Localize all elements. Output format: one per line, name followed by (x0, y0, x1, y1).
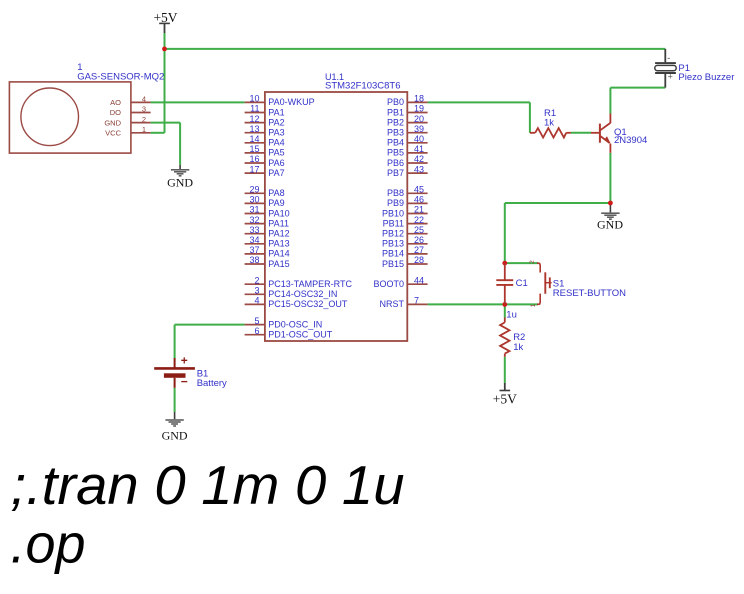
svg-text:PB14: PB14 (382, 249, 404, 259)
svg-text:STM32F103C8T6: STM32F103C8T6 (325, 80, 401, 91)
svg-text:11: 11 (250, 104, 259, 114)
svg-text:−: − (181, 375, 188, 389)
svg-text:PB12: PB12 (382, 229, 404, 239)
svg-text:GAS-SENSOR-MQ2: GAS-SENSOR-MQ2 (77, 71, 164, 82)
svg-text:39: 39 (414, 124, 424, 134)
svg-text:-: - (667, 53, 670, 63)
svg-text:28: 28 (414, 255, 424, 265)
svg-text:GND: GND (167, 176, 193, 190)
svg-text:14: 14 (249, 134, 259, 144)
svg-text:37: 37 (249, 245, 259, 255)
svg-text:46: 46 (414, 195, 424, 205)
svg-text:+5V: +5V (493, 392, 517, 407)
svg-text:4: 4 (142, 95, 146, 104)
svg-text:PB9: PB9 (387, 198, 404, 208)
svg-text:26: 26 (414, 235, 424, 245)
svg-text:+5V: +5V (153, 10, 177, 25)
svg-text:2: 2 (529, 260, 536, 264)
svg-text:38: 38 (249, 255, 259, 265)
svg-text:PB13: PB13 (382, 239, 404, 249)
svg-text:2: 2 (142, 115, 146, 124)
svg-text:PA3: PA3 (268, 128, 284, 138)
svg-text:10: 10 (249, 94, 259, 104)
svg-text:PC14-OSC32_IN: PC14-OSC32_IN (268, 289, 337, 299)
svg-text:33: 33 (249, 225, 259, 235)
svg-text:1: 1 (142, 125, 146, 134)
svg-text:1: 1 (530, 303, 537, 307)
svg-text:PA4: PA4 (268, 138, 284, 148)
svg-text:PA0-WKUP: PA0-WKUP (268, 97, 314, 107)
svg-text:Piezo Buzzer: Piezo Buzzer (678, 72, 734, 83)
svg-text:AO: AO (110, 98, 121, 107)
svg-text:16: 16 (249, 154, 259, 164)
svg-text:18: 18 (414, 94, 424, 104)
svg-text:43: 43 (414, 164, 424, 174)
svg-text:2: 2 (254, 275, 259, 285)
svg-text:PB15: PB15 (382, 259, 404, 269)
svg-text:C1: C1 (516, 278, 528, 289)
svg-text:27: 27 (414, 245, 424, 255)
svg-text:PB11: PB11 (383, 218, 404, 228)
svg-text:34: 34 (249, 235, 259, 245)
svg-text:PA12: PA12 (268, 229, 289, 239)
svg-text:19: 19 (414, 104, 424, 114)
svg-text:13: 13 (249, 124, 259, 134)
svg-text:.op: .op (11, 513, 86, 575)
svg-text:PB8: PB8 (387, 188, 404, 198)
svg-text:12: 12 (249, 114, 259, 124)
svg-text:GND: GND (162, 429, 188, 443)
svg-text:PA13: PA13 (268, 239, 289, 249)
svg-text:PA10: PA10 (268, 208, 289, 218)
svg-text:PD1-OSC_OUT: PD1-OSC_OUT (268, 330, 333, 340)
svg-text:17: 17 (249, 164, 259, 174)
svg-text:PA5: PA5 (268, 148, 284, 158)
svg-text:25: 25 (414, 225, 424, 235)
svg-text:VCC: VCC (105, 129, 121, 138)
svg-text:PA11: PA11 (268, 218, 289, 228)
svg-text:21: 21 (414, 205, 424, 215)
svg-text:PA6: PA6 (268, 158, 284, 168)
svg-text:31: 31 (249, 205, 259, 215)
svg-text:40: 40 (414, 134, 424, 144)
svg-text:3: 3 (142, 105, 146, 114)
svg-text:+: + (668, 71, 673, 81)
svg-text:2N3904: 2N3904 (614, 135, 647, 146)
svg-text:PA14: PA14 (268, 249, 289, 259)
svg-text:4: 4 (254, 296, 259, 306)
svg-text:DO: DO (110, 108, 121, 117)
svg-text:PB2: PB2 (387, 117, 404, 127)
svg-text:PA9: PA9 (268, 198, 284, 208)
svg-text:GND: GND (597, 218, 623, 232)
svg-text:1k: 1k (544, 117, 554, 128)
svg-text:Battery: Battery (197, 378, 227, 389)
svg-text:30: 30 (249, 195, 259, 205)
svg-text:PA8: PA8 (268, 188, 284, 198)
svg-text:BOOT0: BOOT0 (373, 279, 404, 289)
svg-text:PA2: PA2 (268, 117, 284, 127)
svg-text:45: 45 (414, 185, 424, 195)
svg-text:;.tran 0 1m 0 1u: ;.tran 0 1m 0 1u (11, 454, 405, 516)
svg-text:GND: GND (104, 118, 121, 127)
svg-text:1u: 1u (506, 310, 517, 321)
svg-text:PB0: PB0 (387, 97, 404, 107)
svg-text:32: 32 (249, 215, 259, 225)
svg-text:20: 20 (414, 114, 424, 124)
svg-text:44: 44 (414, 275, 424, 285)
svg-text:29: 29 (249, 185, 259, 195)
svg-text:PA1: PA1 (268, 107, 284, 117)
svg-text:PB6: PB6 (387, 158, 404, 168)
svg-text:1k: 1k (513, 342, 523, 353)
svg-text:22: 22 (414, 215, 424, 225)
svg-text:7: 7 (414, 296, 419, 306)
svg-text:15: 15 (249, 144, 259, 154)
svg-text:PB7: PB7 (387, 168, 404, 178)
svg-text:PC15-OSC32_OUT: PC15-OSC32_OUT (268, 299, 348, 309)
svg-text:PB5: PB5 (387, 148, 404, 158)
svg-text:PB1: PB1 (387, 107, 404, 117)
svg-text:PB10: PB10 (382, 208, 404, 218)
svg-text:PA7: PA7 (268, 168, 284, 178)
svg-text:5: 5 (254, 316, 259, 326)
svg-text:PC13-TAMPER-RTC: PC13-TAMPER-RTC (268, 279, 352, 289)
svg-text:3: 3 (254, 286, 259, 296)
svg-text:NRST: NRST (380, 299, 405, 309)
svg-text:41: 41 (414, 144, 424, 154)
svg-text:PB3: PB3 (387, 128, 404, 138)
svg-text:42: 42 (414, 154, 424, 164)
svg-text:PB4: PB4 (387, 138, 404, 148)
svg-text:PA15: PA15 (268, 259, 289, 269)
svg-text:6: 6 (254, 326, 259, 336)
svg-text:+: + (181, 354, 188, 368)
svg-text:RESET-BUTTON: RESET-BUTTON (553, 288, 626, 299)
svg-text:PD0-OSC_IN: PD0-OSC_IN (268, 319, 322, 329)
